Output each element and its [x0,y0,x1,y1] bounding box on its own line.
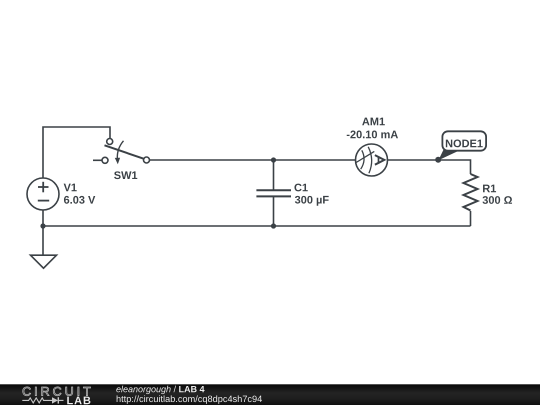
label SW1 [114,171,137,179]
label V1 [64,184,77,192]
voltage source V1 [27,178,59,210]
junction dot at V1 bottom [40,223,45,228]
CircuitLab logo wordmark CIRCUIT [23,387,91,396]
pin 2 unused throw terminal [102,157,108,163]
meter scale arc inner [361,150,364,169]
capacitor C1 [256,190,291,196]
switch SW1 [102,139,150,165]
wire: V1 bottom to bottom rail [42,210,44,226]
junction dot node NODE1 [435,157,441,163]
label R1 [483,185,496,193]
wire: bottom rail [43,225,471,227]
label AM1 [362,118,385,126]
resistor R1 [464,174,478,211]
wire: V1 top up and over to switch pole [43,127,110,178]
value 300 Ohm [483,196,513,204]
actuation arrow arc [117,141,123,159]
value 300 uF [295,196,329,206]
wire: capacitor bottom lead [273,197,275,227]
footer url [117,395,262,404]
CircuitLab logo diode [52,397,64,403]
rotated letter A [375,155,384,165]
wire: resistor bottom lead to bottom rail [470,211,472,226]
node flag NODE1 [438,131,486,160]
wire: capacitor top lead [273,160,275,190]
wire: ammeter to top-right corner down to resistor [388,160,471,174]
meter scale arc outer [368,147,371,174]
footer credit eleanorgough / LAB 4 [116,386,204,394]
value 6.03 V [64,196,95,204]
value -20.10 mA [347,131,398,139]
junction dot at capacitor top [271,157,276,162]
meter needle [355,151,374,163]
label C1 [294,184,307,192]
wire: switch output to ammeter [150,159,356,161]
pin 1 pole terminal [107,139,113,145]
CircuitLab logo resistor zigzag [22,398,52,403]
CircuitLab logo wordmark LAB [67,397,90,405]
wire: switch unused throw stub [93,159,102,161]
footer bar [0,384,540,405]
wire: bottom rail junction down to ground [42,226,44,255]
pin 3 throw terminal [144,157,150,163]
ammeter AM1 [355,144,387,176]
ground [31,255,57,268]
blade [105,145,144,158]
junction dot at capacitor bottom [271,223,276,228]
